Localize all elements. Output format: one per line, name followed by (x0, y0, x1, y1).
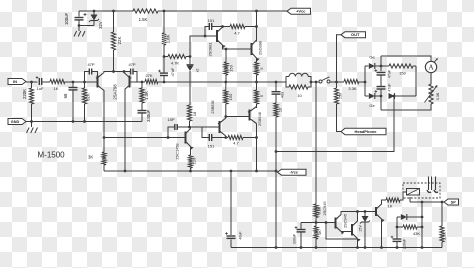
resistor 150 meter (381, 65, 389, 67)
resistor 6.8K (314, 204, 318, 218)
resistor 220K (31, 82, 33, 88)
svg-text:1.3K: 1.3K (144, 91, 149, 100)
wire output node (311, 81, 319, 83)
wire (43, 81, 51, 83)
wire -Vcc rail (104, 170, 278, 172)
transistor Q1 2SA798a (97, 76, 99, 88)
svg-text:M-1500: M-1500 (38, 151, 66, 160)
wire Q11 emitter (256, 107, 258, 109)
svg-text:1K: 1K (318, 230, 322, 235)
wire base line q7 (301, 222, 336, 224)
capacitor 47P left (85, 72, 90, 83)
resistor 1K (50, 79, 65, 83)
resistor 150 bottom (225, 82, 227, 90)
wire bridge inner right (415, 66, 417, 96)
svg-text:2SC945: 2SC945 (322, 201, 327, 215)
capacitor 151 bottom (202, 127, 209, 138)
wire meter bottom rail (381, 104, 431, 110)
svg-text:4.7: 4.7 (233, 141, 239, 146)
svg-text:1.8K: 1.8K (166, 34, 171, 43)
resistor 5 top (256, 58, 258, 62)
svg-text:1.5K: 1.5K (139, 17, 148, 22)
node supply filter (93, 10, 96, 13)
diode bridge right (389, 93, 395, 99)
svg-text:x2: x2 (196, 69, 200, 73)
svg-text:330uF: 330uF (293, 233, 297, 244)
wire vas base line (104, 137, 186, 139)
capacitor 47uF a (377, 72, 386, 74)
svg-text:1K: 1K (388, 204, 393, 209)
speaker flag SP (444, 199, 459, 205)
wire emitter tail (104, 72, 124, 73)
svg-text:68: 68 (63, 93, 68, 98)
transistor Q4 2SD388 (251, 43, 253, 55)
resistor 150 headphone (336, 82, 338, 88)
wire q8 emitter (357, 239, 359, 248)
wire collector Q2 (124, 90, 126, 171)
svg-text:IN: IN (13, 79, 17, 84)
svg-text:15V: 15V (359, 225, 363, 232)
transistor Q7 2SC945 (335, 218, 337, 229)
wire collector Q1 (103, 90, 105, 152)
svg-text:3K: 3K (88, 155, 93, 160)
svg-text:43K: 43K (413, 231, 420, 236)
wire diode loop (396, 217, 398, 239)
capacitor 47P right (124, 71, 131, 73)
wire bridge to ground line (276, 96, 394, 152)
svg-text:2.2K: 2.2K (443, 232, 447, 240)
svg-text:Ge: Ge (369, 55, 375, 60)
wire meter to pot (430, 73, 432, 84)
svg-text:2SB536: 2SB536 (211, 100, 215, 113)
wire Q11 base (226, 116, 250, 118)
speaker feed wire (315, 82, 317, 204)
switch (319, 80, 322, 83)
wire sense column (421, 202, 423, 248)
svg-text:151: 151 (208, 18, 215, 23)
wire q9 collector (382, 200, 387, 205)
svg-text:82K: 82K (86, 93, 91, 101)
svg-text:2SC945: 2SC945 (343, 214, 348, 228)
wire out tap (337, 35, 342, 82)
svg-text:2SB546: 2SB546 (257, 112, 262, 126)
svg-text:4.7K: 4.7K (171, 61, 180, 66)
resistor 2.2K (441, 202, 443, 226)
svg-text:100uF: 100uF (64, 12, 69, 25)
wire meter top rail (381, 56, 431, 61)
transistor Q3 2SD881 (216, 30, 218, 42)
resistor 4.7 top (230, 24, 245, 28)
svg-text:151: 151 (208, 144, 215, 149)
wire zener return (79, 25, 94, 27)
svg-text:47uF: 47uF (388, 69, 392, 78)
relay coil (407, 189, 420, 196)
power flag +Vcc (287, 8, 311, 14)
diode Ge top (365, 65, 369, 67)
headphone flag (341, 128, 386, 135)
svg-text:SP: SP (451, 200, 457, 204)
ground (78, 26, 80, 32)
capacitor 330uF protection (300, 223, 302, 230)
svg-text:330uF: 330uF (146, 109, 151, 122)
svg-text:-Vcc: -Vcc (290, 170, 299, 175)
svg-text:403: 403 (281, 92, 285, 98)
svg-text:150: 150 (339, 93, 343, 99)
svg-text:4.7: 4.7 (234, 31, 240, 36)
resistor 82K (84, 82, 86, 88)
svg-text:150: 150 (228, 93, 233, 100)
svg-text:1uF: 1uF (37, 86, 44, 91)
capacitor 330uF (141, 103, 143, 110)
wire bias chain (189, 71, 191, 105)
svg-text:2SD388: 2SD388 (258, 41, 263, 55)
capacitor 470 (72, 82, 74, 87)
capacitor 15P (168, 127, 175, 138)
ammeter A (425, 61, 436, 72)
zener diode 32V (93, 11, 95, 15)
resistor 3.3K (344, 79, 359, 83)
svg-text:5: 5 (259, 94, 264, 97)
svg-text:10: 10 (279, 108, 283, 112)
resistor 1K protection (315, 223, 317, 227)
bias diodes x2 (189, 57, 191, 65)
ground flag GND (8, 119, 26, 125)
resistor 5 bottom (256, 82, 258, 90)
svg-text:10: 10 (297, 93, 302, 98)
transistor Q2 2SA798b (129, 76, 131, 88)
output flag OUT (341, 32, 366, 38)
svg-text:27K: 27K (145, 73, 152, 78)
resistor 27K (145, 79, 158, 83)
svg-text:18: 18 (192, 111, 197, 116)
resistor 4.7 bottom (228, 135, 243, 139)
transistor Q8 2SC945 (351, 224, 353, 236)
svg-text:HeadPhone: HeadPhone (354, 129, 377, 134)
svg-text:GND: GND (11, 120, 20, 124)
wire base right (130, 81, 146, 83)
diode Ge bottom (365, 95, 369, 97)
svg-text:3.3K: 3.3K (436, 92, 440, 100)
wire Q3 emitter line (223, 45, 252, 49)
capacitor 1uF bias (163, 57, 165, 73)
transistor Q10 2SB536 (219, 121, 221, 133)
capacitor 220uF (393, 238, 402, 240)
wire Q3 collector (222, 26, 224, 29)
resistor 3K (103, 151, 105, 153)
wire bias to base (190, 36, 205, 57)
wire Q10 base (190, 126, 220, 128)
transistor Q9 2SC945 (375, 207, 377, 216)
svg-text:A: A (428, 64, 433, 72)
resistor 220 (190, 147, 192, 156)
ground (31, 122, 33, 128)
power flag -Vcc (278, 169, 307, 175)
resistor 43K (397, 226, 403, 228)
wire q8 collector (357, 212, 359, 222)
transistor Q11 2SB546 (249, 110, 251, 121)
resistor 1.3K (141, 82, 143, 88)
capacitor 473 zobel (275, 82, 277, 92)
resistor 22K (112, 10, 115, 13)
svg-text:OUT: OUT (351, 32, 360, 37)
resistor 1.8K (163, 10, 166, 13)
wire q8 feedback (326, 223, 358, 240)
svg-text:150: 150 (229, 64, 234, 71)
capacitor 1uF (38, 78, 40, 85)
capacitor 47uF b (377, 86, 386, 88)
wire input node (65, 81, 98, 83)
wire q9 emitter (381, 219, 383, 248)
svg-text:220K: 220K (22, 89, 27, 99)
relay box (403, 183, 440, 198)
resistor 1K q9 (386, 198, 400, 202)
inductor with resistor 10 (285, 77, 287, 83)
capacitor 40uF (230, 171, 232, 235)
svg-text:220: 220 (192, 157, 197, 164)
wire input (26, 81, 38, 83)
resistor 4.7K (163, 55, 166, 58)
svg-text:32V: 32V (98, 21, 103, 29)
svg-text:2SD881: 2SD881 (208, 42, 213, 56)
capacitor 100uF (78, 11, 80, 17)
wire q7 emitter to q8 base (341, 231, 352, 233)
resistor 10 zobel (275, 94, 277, 103)
svg-text:15P: 15P (167, 117, 174, 122)
wire Q10 collector (225, 136, 227, 138)
capacitor 151 top (205, 27, 217, 37)
wire bottom rail (231, 247, 442, 249)
zener 15V (364, 210, 367, 213)
svg-text:Ge: Ge (369, 103, 375, 108)
resistor 1.5K (133, 9, 158, 13)
wire q7 collector (341, 212, 376, 216)
wire Q11 collector (256, 124, 258, 172)
relay contacts (428, 177, 430, 191)
svg-text:2SC1458: 2SC1458 (175, 143, 180, 159)
svg-text:6.8K: 6.8K (318, 206, 322, 214)
svg-text:150: 150 (399, 71, 406, 76)
wire gnd rail (26, 121, 142, 123)
wire mid rail (158, 81, 286, 83)
wire +Vcc top rail (79, 10, 133, 12)
wire top rail to Q4 (256, 11, 258, 42)
svg-text:22K: 22K (117, 37, 122, 45)
resistor 18 (187, 105, 191, 121)
svg-text:5: 5 (259, 67, 264, 70)
wire Q10 emitter (225, 117, 227, 119)
svg-text:3.3K: 3.3K (348, 86, 357, 91)
bridge mid column (380, 65, 383, 68)
svg-text:47uF: 47uF (388, 83, 392, 92)
svg-text:47uF: 47uF (171, 67, 175, 76)
diode protection (397, 216, 401, 218)
wire to out node (330, 81, 344, 83)
svg-text:2SA798: 2SA798 (113, 84, 118, 100)
resistor 150 top (225, 49, 227, 62)
wire to relay coil (400, 192, 407, 200)
svg-text:+Vcc: +Vcc (296, 9, 306, 14)
wire relay output (409, 197, 411, 202)
input flag IN (8, 79, 26, 85)
svg-text:47P: 47P (87, 62, 94, 67)
svg-text:47P: 47P (128, 62, 135, 67)
wire bridge left col (364, 66, 366, 96)
transistor Q5 2SC1458 (185, 132, 187, 144)
svg-text:40uF: 40uF (239, 231, 243, 240)
svg-text:1K: 1K (54, 86, 59, 91)
potentiometer 3.3K (429, 84, 433, 104)
